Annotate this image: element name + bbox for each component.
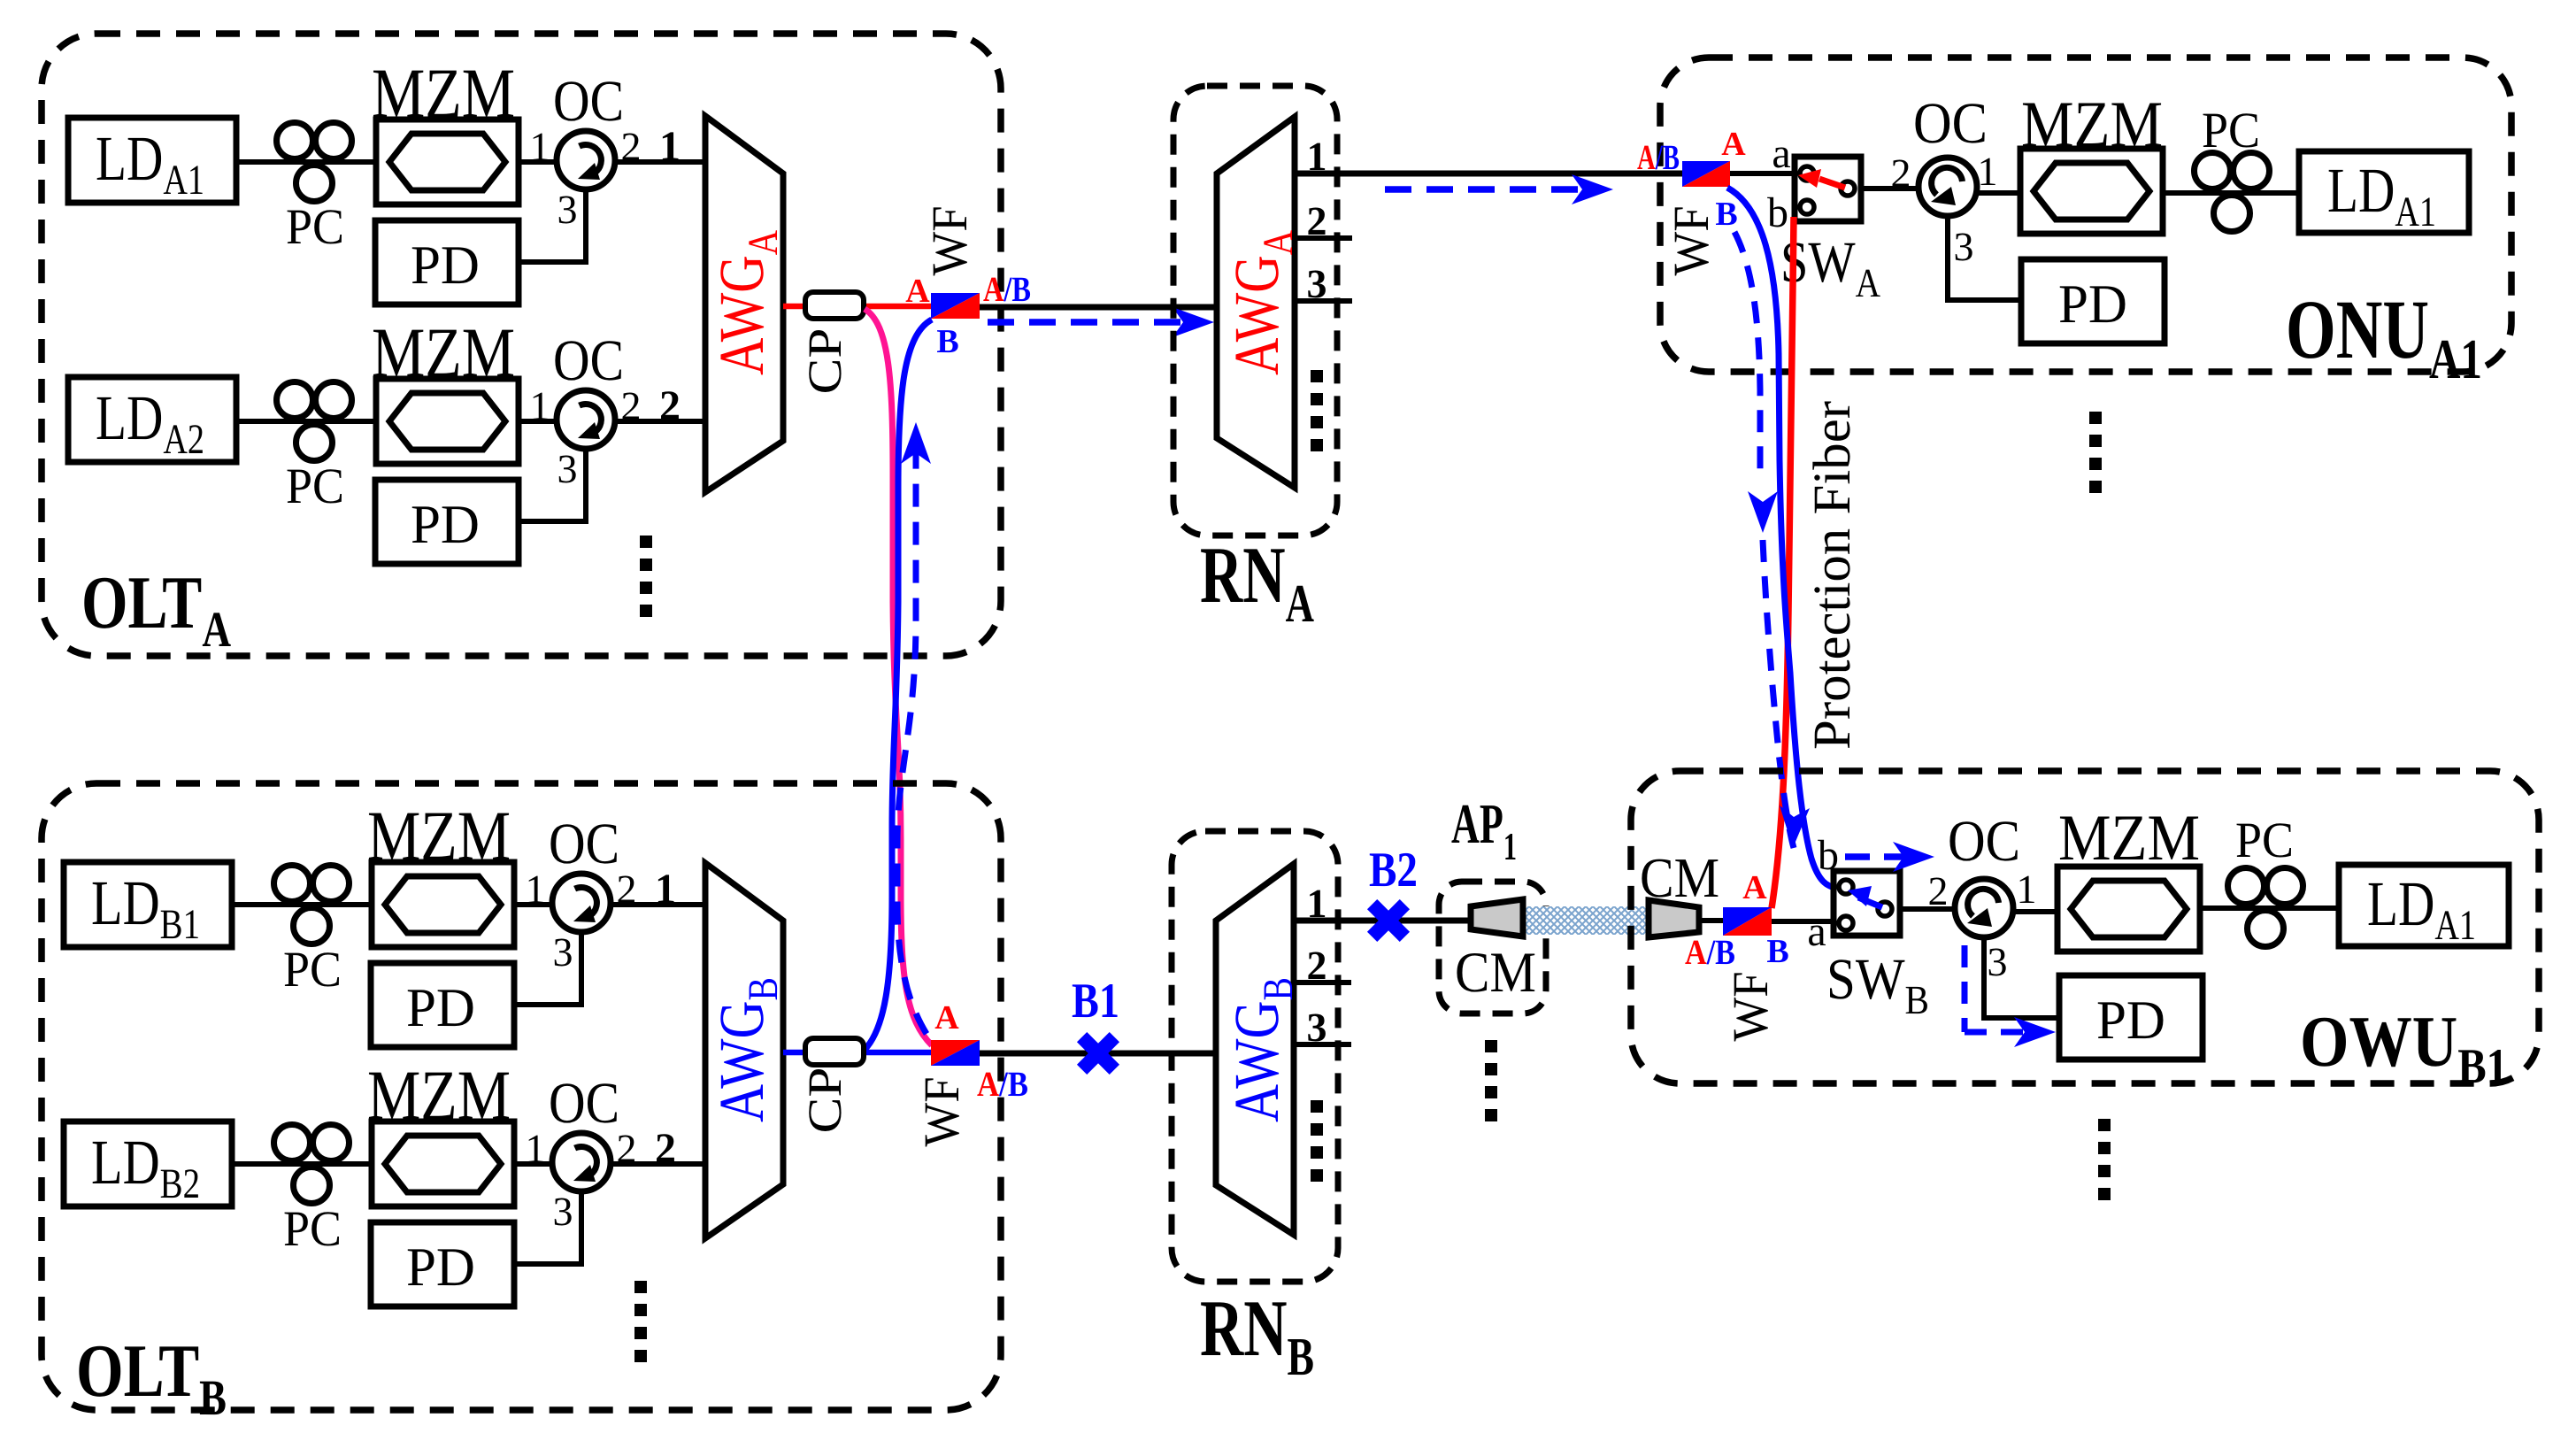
wavelength filter WF (ONU_A1) bbox=[1682, 161, 1730, 187]
svg-text:a: a bbox=[1807, 908, 1826, 955]
photodiode PD (A2) bbox=[375, 480, 519, 564]
laser diode LD_A1 (ONU_A1) bbox=[2299, 151, 2469, 235]
svg-text:PC: PC bbox=[283, 942, 342, 998]
Mach-Zehnder modulator MZM (ONU_A1) bbox=[2020, 149, 2163, 234]
wire OC to AWG_A port 1 bbox=[615, 159, 705, 165]
ellipsis dots (RN_A ports) bbox=[1311, 370, 1323, 451]
OWU_B1 dashed enclosure bbox=[1631, 771, 2539, 1083]
photodiode PD (OWU_B1) bbox=[2059, 975, 2203, 1060]
svg-text:a: a bbox=[1772, 130, 1790, 177]
fiber cut mark B2 (blue X) bbox=[1367, 899, 1410, 942]
ellipsis dots below PD (OLT_A) bbox=[640, 536, 652, 617]
interconnection fiber A (magenta curve OLT_A CP to OLT_B WF) bbox=[865, 309, 932, 1045]
feeder fiber OLT_B to RN_B bbox=[980, 1051, 1217, 1057]
svg-text:OC: OC bbox=[1913, 91, 1988, 156]
optical circulator OC (ONU_A1) bbox=[1919, 158, 1977, 216]
svg-text:PD: PD bbox=[411, 495, 480, 555]
svg-text:A/B: A/B bbox=[977, 1064, 1028, 1104]
wire SW_A to OC bbox=[1861, 186, 1920, 191]
polarization controller PC (ONU_A1) bbox=[2195, 153, 2270, 232]
wire OC port 3 to PD (B1) bbox=[514, 932, 581, 1005]
wire OC port 3 to PD (A1) bbox=[519, 189, 586, 262]
Mach-Zehnder modulator MZM (B1) bbox=[372, 862, 514, 947]
wavelength filter WF (OWU_B1) bbox=[1723, 907, 1772, 936]
wire MZM to OC (B1) bbox=[514, 902, 553, 907]
svg-text:A: A bbox=[905, 273, 930, 310]
AWG_A trapezoid (OLT_A) bbox=[705, 116, 783, 492]
svg-text:PD: PD bbox=[2058, 274, 2127, 335]
wire LD_A2 to MZM bbox=[236, 419, 376, 424]
svg-text:3: 3 bbox=[553, 1189, 573, 1234]
Mach-Zehnder modulator MZM (B2) bbox=[372, 1121, 514, 1206]
coupler CP (OLT_B) bbox=[805, 1038, 864, 1065]
feeder fiber OLT_A to RN_A bbox=[980, 304, 1217, 311]
svg-text:3: 3 bbox=[1988, 939, 2008, 984]
svg-text:OC: OC bbox=[553, 69, 624, 134]
coupler CP (OLT_A) bbox=[805, 292, 864, 319]
svg-text:B: B bbox=[936, 323, 958, 360]
wire OC to MZM (OWU_B1) bbox=[2013, 909, 2059, 914]
AWG_B trapezoid (OLT_B) bbox=[705, 863, 783, 1238]
polarization controller PC (OWU_B1) bbox=[2228, 868, 2303, 947]
laser diode LD_A2 bbox=[68, 377, 236, 463]
ellipsis dots below ONU_A1 bbox=[2089, 412, 2102, 493]
optical circulator OC (B1) bbox=[552, 874, 611, 932]
wire OC port 3 to PD (A2) bbox=[519, 449, 586, 521]
photodiode PD (B1) bbox=[371, 963, 514, 1047]
svg-text:OC: OC bbox=[549, 1071, 619, 1136]
wire OC port 3 to PD (B2) bbox=[514, 1191, 581, 1264]
protection fiber blue path (ONU WF down to SW_B) bbox=[1727, 188, 1837, 888]
ellipsis dots below PD (OLT_B) bbox=[634, 1281, 647, 1362]
wire OC to AWG_A port 2 bbox=[615, 419, 705, 424]
wire MZM to OC (B2) bbox=[514, 1161, 553, 1167]
wire OC to AWG_B port 2 bbox=[611, 1161, 705, 1167]
svg-text:2: 2 bbox=[1928, 868, 1949, 913]
svg-text:OC: OC bbox=[553, 328, 624, 393]
wire LD_A1 to MZM bbox=[236, 159, 376, 165]
AWG_A trapezoid (RN_A) bbox=[1217, 117, 1295, 488]
ellipsis dots below OWU_B1 bbox=[2098, 1119, 2111, 1200]
svg-text:CP: CP bbox=[798, 1067, 851, 1134]
laser diode LD_B1 bbox=[64, 862, 232, 948]
svg-text:3: 3 bbox=[553, 929, 573, 975]
optical switch SW_B bbox=[1834, 871, 1900, 936]
svg-text:2: 2 bbox=[1891, 150, 1911, 196]
optical circulator OC (A1) bbox=[557, 131, 615, 189]
polarization controller PC (B2) bbox=[274, 1125, 350, 1204]
port 2 stub of RN_A AWG bbox=[1295, 235, 1352, 241]
Mach-Zehnder modulator MZM (OWU_B1) bbox=[2057, 867, 2200, 952]
distribution fiber RN_B port1 to AP_1 bbox=[1294, 918, 1473, 924]
wire MZM to OC (A1) bbox=[519, 159, 557, 165]
port 2 stub of RN_B AWG bbox=[1294, 980, 1351, 985]
optical circulator OC (OWU_B1) bbox=[1955, 879, 2013, 937]
svg-text:1: 1 bbox=[659, 123, 681, 170]
svg-text:PD: PD bbox=[406, 978, 475, 1038]
Mach-Zehnder modulator MZM (A2) bbox=[376, 379, 519, 464]
protection signal B arrow (blue dashed curve down) bbox=[1734, 232, 1794, 848]
wire MZM to PC (OWU_B1) bbox=[2200, 905, 2341, 911]
svg-text:B2: B2 bbox=[1369, 843, 1418, 898]
svg-text:A: A bbox=[1721, 126, 1746, 163]
svg-text:MZM: MZM bbox=[372, 314, 515, 392]
photodiode PD (A1) bbox=[375, 220, 519, 304]
wire WF to SW_A bbox=[1730, 171, 1796, 176]
wavelength filter WF (OLT_A) bbox=[931, 293, 980, 319]
ellipsis dots (RN_B ports) bbox=[1311, 1100, 1323, 1182]
svg-text:Protection Fiber: Protection Fiber bbox=[1803, 401, 1861, 750]
laser diode LD_A1 (OWU_B1) bbox=[2339, 865, 2509, 949]
svg-text:1: 1 bbox=[655, 866, 676, 913]
air gap fiber span (hatched) bbox=[1521, 906, 1650, 935]
svg-text:3: 3 bbox=[557, 446, 578, 491]
wire OC port 3 to PD (OWU_B1) bbox=[1984, 937, 2061, 1018]
photodiode PD (B2) bbox=[371, 1222, 514, 1306]
svg-text:CP: CP bbox=[798, 328, 851, 395]
svg-text:A/B: A/B bbox=[983, 269, 1031, 309]
wire LD_B2 to MZM bbox=[232, 1161, 372, 1167]
wire SW_B to OC bbox=[1899, 906, 1957, 912]
svg-text:CM: CM bbox=[1455, 941, 1536, 1005]
downstream arrow to ONU (blue dashed) bbox=[1385, 174, 1613, 204]
AWG_B trapezoid (RN_B) bbox=[1216, 864, 1294, 1235]
downstream signal arrow A/B (blue dashed) bbox=[988, 307, 1214, 337]
wire OC to AWG_B port 1 bbox=[611, 902, 705, 907]
svg-text:2: 2 bbox=[655, 1125, 676, 1172]
port 3 stub of RN_B AWG bbox=[1294, 1042, 1351, 1047]
protection fiber red path (SW_A port b down to OWU WF) bbox=[1772, 217, 1794, 908]
svg-text:WF: WF bbox=[1664, 206, 1719, 276]
wire MZM to PC (ONU_A1) bbox=[2163, 190, 2301, 196]
wire LD_B1 to MZM bbox=[232, 902, 372, 907]
wire CM to WF (OWU_B1) bbox=[1699, 918, 1725, 923]
OLT_A dashed enclosure bbox=[42, 34, 1001, 656]
wire AWG_B to WF (blue) bbox=[783, 1050, 933, 1056]
ellipsis dots (AP_1) bbox=[1485, 1040, 1497, 1121]
svg-text:PD: PD bbox=[411, 235, 480, 296]
collimator CM left (gray trapezoid) bbox=[1471, 899, 1523, 936]
svg-text:3: 3 bbox=[1307, 1005, 1327, 1050]
svg-text:PC: PC bbox=[2235, 813, 2294, 868]
wire WF to SW_B bbox=[1772, 919, 1835, 924]
protection b-port arrow (blue dashed, into SW_B) bbox=[1845, 842, 1934, 872]
OLT_B dashed enclosure bbox=[42, 783, 1001, 1410]
RN_B dashed enclosure bbox=[1172, 831, 1338, 1282]
svg-text:WF: WF bbox=[922, 206, 978, 276]
arrowhead 1 on protection B path bbox=[1748, 491, 1778, 533]
svg-text:PC: PC bbox=[2202, 103, 2260, 158]
svg-text:MZM: MZM bbox=[367, 1057, 511, 1135]
optical circulator OC (A2) bbox=[557, 390, 615, 449]
svg-text:1: 1 bbox=[2017, 867, 2037, 912]
monitoring path (blue dashed) into PD bbox=[1965, 945, 2056, 1047]
svg-text:2: 2 bbox=[659, 382, 681, 429]
polarization controller PC (B1) bbox=[274, 866, 350, 944]
wire MZM to OC (A2) bbox=[519, 419, 557, 424]
polarization controller PC (A2) bbox=[277, 382, 352, 461]
svg-text:WF: WF bbox=[1723, 972, 1779, 1042]
optical switch SW_A bbox=[1795, 157, 1861, 221]
svg-text:B: B bbox=[1766, 933, 1788, 970]
wire OC port 3 to PD (ONU_A1) bbox=[1948, 216, 2023, 300]
svg-text:2: 2 bbox=[1307, 943, 1327, 988]
svg-text:2: 2 bbox=[1307, 198, 1327, 243]
svg-text:PD: PD bbox=[406, 1237, 475, 1298]
fiber cut mark B1 (blue X) bbox=[1077, 1032, 1119, 1075]
svg-text:MZM: MZM bbox=[367, 798, 511, 875]
polarization controller PC (A1) bbox=[277, 123, 352, 202]
Mach-Zehnder modulator MZM (A1) bbox=[376, 119, 519, 204]
svg-text:3: 3 bbox=[557, 187, 578, 232]
svg-text:PD: PD bbox=[2096, 990, 2165, 1051]
distribution fiber RN_A port1 to ONU_A1 bbox=[1295, 171, 1684, 177]
svg-text:OC: OC bbox=[549, 812, 619, 876]
CM dashed enclosure (AP_1) bbox=[1439, 882, 1546, 1013]
svg-text:WF: WF bbox=[914, 1077, 970, 1147]
svg-text:1: 1 bbox=[526, 867, 546, 912]
svg-text:1: 1 bbox=[1978, 149, 1998, 194]
svg-text:A/B: A/B bbox=[1685, 932, 1735, 972]
svg-text:MZM: MZM bbox=[2058, 802, 2200, 875]
svg-text:A: A bbox=[934, 999, 959, 1036]
RN_A dashed enclosure bbox=[1173, 86, 1337, 536]
svg-text:MZM: MZM bbox=[372, 55, 515, 133]
switch arm arrow (blue, SW_B) bbox=[1848, 886, 1882, 907]
laser diode LD_A1 bbox=[68, 118, 236, 204]
svg-text:1: 1 bbox=[530, 124, 550, 169]
laser diode LD_B2 bbox=[64, 1121, 232, 1207]
protection path arrow (blue dashed curve, up) bbox=[897, 422, 931, 1034]
svg-text:PC: PC bbox=[286, 458, 344, 514]
svg-text:OC: OC bbox=[1948, 809, 2020, 874]
svg-text:3: 3 bbox=[1307, 261, 1327, 306]
svg-text:3: 3 bbox=[1954, 224, 1974, 269]
wire OC to MZM (ONU_A1) bbox=[1977, 190, 2021, 196]
svg-text:A: A bbox=[1742, 869, 1767, 906]
collimator CM right (gray trapezoid) bbox=[1649, 900, 1699, 937]
switch arm arrow (red, SW_A) bbox=[1798, 169, 1845, 188]
svg-text:MZM: MZM bbox=[2021, 89, 2163, 161]
port 3 stub of RN_A AWG bbox=[1295, 298, 1352, 304]
svg-text:1: 1 bbox=[526, 1126, 546, 1171]
ONU_A1 dashed enclosure bbox=[1660, 58, 2511, 372]
interconnection fiber B (blue curve OLT_A WF to OLT_B CP) bbox=[865, 320, 932, 1050]
svg-text:PC: PC bbox=[286, 199, 344, 255]
svg-text:A/B: A/B bbox=[1637, 137, 1680, 177]
svg-text:1: 1 bbox=[530, 383, 550, 428]
svg-text:PC: PC bbox=[283, 1201, 342, 1257]
wire AWG_A to WF (red) bbox=[783, 304, 933, 310]
svg-text:CM: CM bbox=[1640, 846, 1719, 909]
arrowhead 2 on protection B path bbox=[1780, 805, 1810, 848]
wavelength filter WF (OLT_B) bbox=[931, 1040, 980, 1066]
svg-text:B1: B1 bbox=[1072, 974, 1119, 1029]
optical circulator OC (B2) bbox=[552, 1133, 611, 1191]
photodiode PD (ONU_A1) bbox=[2021, 259, 2165, 343]
